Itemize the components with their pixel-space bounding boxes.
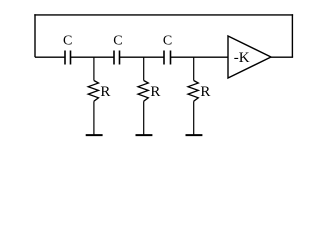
node junction R2 [143, 56, 145, 58]
capacitor C2 [114, 51, 120, 65]
label R (R1 value) [100, 84, 110, 100]
label C (C2 value) [113, 34, 122, 49]
svg-text:R: R [150, 84, 160, 100]
wire amplifier output [271, 56, 293, 58]
wire R1 bottom [93, 101, 95, 135]
label C (C1 value) [63, 34, 72, 49]
wire feedback top [34, 14, 293, 16]
svg-text:R: R [100, 84, 110, 100]
wire input segment to C1 [35, 56, 65, 58]
svg-text:C: C [163, 34, 172, 49]
label -K (amplifier gain) [234, 50, 250, 66]
wire R3 bottom [193, 101, 195, 135]
resistor R2 [138, 81, 148, 102]
resistor R1 [88, 81, 98, 102]
op-amp U1 (inverting amplifier -K) [228, 36, 271, 78]
label R (R3 value) [200, 84, 210, 100]
capacitor C1 [65, 51, 71, 65]
wire feedback right vertical [291, 14, 293, 57]
wire C1 to C2 [71, 56, 115, 58]
label R (R2 value) [150, 84, 160, 100]
svg-text:R: R [200, 84, 210, 100]
svg-text:C: C [113, 34, 122, 49]
label C (C3 value) [163, 34, 172, 49]
ground (R1) [86, 134, 103, 136]
ground (R2) [136, 134, 153, 136]
svg-text:-K: -K [234, 50, 250, 66]
wire R1 top [93, 57, 95, 80]
wire R2 bottom [143, 101, 145, 135]
resistor R3 [188, 81, 198, 102]
svg-text:C: C [63, 34, 72, 49]
wire C2 to C3 [120, 56, 165, 58]
ground (R3) [186, 134, 203, 136]
node junction R1 [93, 56, 95, 58]
wire C3 to amplifier input [171, 56, 229, 58]
capacitor C3 [164, 51, 171, 65]
wire R3 top [193, 57, 195, 80]
node junction R3 [193, 56, 195, 58]
wire R2 top [143, 57, 145, 80]
wire feedback left vertical [34, 14, 36, 57]
